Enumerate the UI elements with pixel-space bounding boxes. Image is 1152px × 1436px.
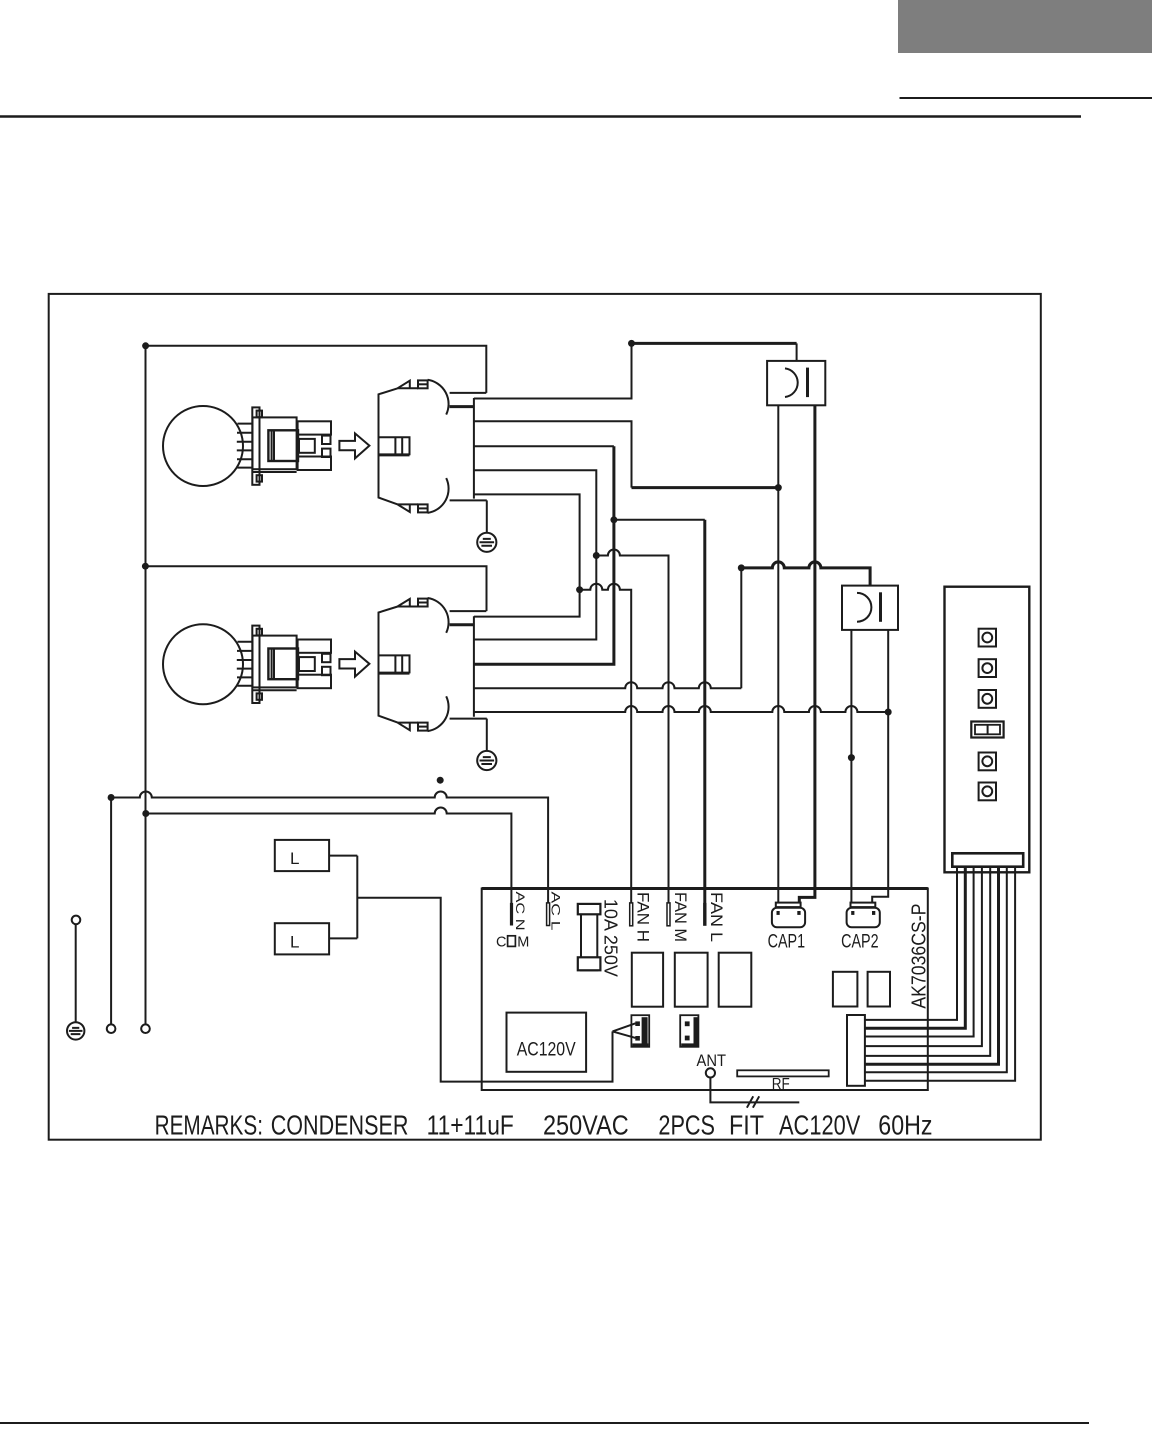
- bottom page rule: [0, 1422, 1089, 1424]
- svg-text:L: L: [290, 932, 299, 951]
- ribbon wire 7: [865, 867, 1007, 1072]
- switch combined wire to PCB: [357, 898, 612, 1082]
- PE wire: [75, 924, 77, 1022]
- wire line1 to AC L: [111, 792, 548, 904]
- wire break symbol: [747, 1096, 759, 1107]
- branch to FAN M: [596, 550, 668, 904]
- relay K3: [719, 953, 752, 1007]
- pin AC L: [547, 903, 550, 926]
- wire w3 riser to w3b: [474, 446, 614, 664]
- svg-text:RF: RF: [772, 1076, 790, 1093]
- fork into connector C1: [613, 1023, 636, 1038]
- svg-text:AC120V: AC120V: [517, 1040, 576, 1061]
- button 5: [979, 783, 996, 801]
- svg-text:AC120V: AC120V: [779, 1110, 861, 1141]
- button 3: [979, 690, 996, 708]
- ribbon wire 4: [865, 867, 982, 1046]
- U1 right lead to CAP1: [799, 405, 815, 903]
- switch output wires: [329, 856, 357, 939]
- wire M2 feed top: [145, 566, 486, 611]
- switch box S1: [275, 840, 329, 871]
- pin FAN L: [703, 903, 706, 926]
- control panel outline: [945, 587, 1030, 873]
- wire to protector U2: [741, 562, 870, 586]
- ribbon wire 8: [865, 867, 1015, 1081]
- junction dot FAN H branch: [576, 586, 583, 593]
- wire w3: [474, 445, 614, 447]
- wire M1 feed top: [146, 346, 487, 393]
- wire w1 receptacle1 to protector: [474, 343, 632, 398]
- header rule right: [900, 97, 1152, 99]
- terminal circle left bus: [141, 1024, 150, 1033]
- PE terminal circle: [72, 916, 81, 925]
- wire w4 to w2b: [474, 470, 596, 639]
- lone dot U2 lead: [848, 754, 855, 761]
- PCB right connector: [847, 1015, 865, 1086]
- pin FAN H: [630, 903, 633, 926]
- wire w2: [474, 421, 632, 487]
- wire w5 to w1b: [474, 494, 580, 616]
- svg-text:FIT: FIT: [729, 1110, 764, 1141]
- node dot line1: [108, 794, 115, 801]
- branch to FAN H: [580, 584, 632, 904]
- pin FAN M: [667, 903, 670, 926]
- AC120V box: [507, 1013, 587, 1072]
- svg-text:AC L: AC L: [549, 892, 563, 931]
- svg-text:10A 250V: 10A 250V: [601, 899, 621, 977]
- svg-text:11+11uF: 11+11uF: [427, 1110, 514, 1141]
- junction dot w4b: [738, 564, 745, 571]
- wire w4b riser: [740, 568, 742, 688]
- component box right A: [833, 972, 858, 1007]
- U1 left lead to CAP1: [777, 405, 779, 903]
- svg-text:250VAC: 250VAC: [543, 1110, 629, 1141]
- node dot M1: [142, 342, 149, 349]
- junction dot FAN L branch: [610, 516, 617, 523]
- svg-text:FAN L: FAN L: [707, 892, 726, 942]
- panel connector: [952, 853, 1023, 866]
- button 2: [979, 659, 996, 677]
- svg-text:AC N: AC N: [513, 892, 527, 931]
- svg-text:REMARKS:: REMARKS:: [155, 1110, 263, 1141]
- svg-text:CAP2: CAP2: [841, 932, 879, 953]
- header gray block: [898, 0, 1152, 53]
- capacitor CAP2: [847, 908, 880, 928]
- thermal protector U2: [842, 586, 898, 630]
- thermal protector U1: [767, 361, 825, 405]
- U2 left lead to CAP2: [850, 630, 852, 903]
- junction dot w1: [628, 340, 635, 347]
- capacitor CAP1: [772, 908, 805, 928]
- ANT wire: [710, 1078, 799, 1103]
- isolated dot: [437, 777, 444, 784]
- pin AC N: [510, 903, 513, 926]
- top page rule: [0, 115, 1081, 118]
- PCB board outline: [482, 889, 928, 1091]
- node dot line2: [142, 810, 149, 817]
- svg-text:M: M: [517, 935, 529, 951]
- ribbon wire 2: [865, 867, 965, 1029]
- svg-text:AK7036CS-P: AK7036CS-P: [907, 904, 930, 1009]
- U2 right lead to CAP2: [872, 630, 888, 903]
- svg-text:60Hz: 60Hz: [878, 1110, 932, 1141]
- svg-text:C: C: [496, 935, 506, 951]
- PE ground symbol: [67, 1022, 84, 1039]
- fuse F1: [581, 905, 597, 971]
- ribbon wire 3: [865, 867, 974, 1037]
- button 4: [979, 753, 996, 771]
- connector C1: [631, 1015, 649, 1047]
- switch box S2: [275, 923, 329, 954]
- connector C2: [680, 1015, 698, 1047]
- junction dot w5b/U2: [885, 709, 892, 716]
- terminal circle N bus: [107, 1024, 116, 1033]
- diagram border frame: [49, 294, 1041, 1140]
- junction dot w2/U1: [775, 484, 782, 491]
- wire w5b run: [474, 706, 888, 712]
- ribbon wire 6: [865, 867, 999, 1065]
- ribbon wire 1: [865, 867, 957, 1020]
- N bus wire: [110, 798, 112, 1025]
- svg-text:ANT: ANT: [697, 1051, 727, 1070]
- junction dot FAN M branch: [593, 552, 600, 559]
- ANT terminal circle: [706, 1068, 715, 1077]
- relay K2: [675, 953, 708, 1007]
- left bus wire: [145, 346, 147, 1025]
- relay K1: [632, 953, 663, 1007]
- button 1: [979, 629, 996, 647]
- motor assembly 2: [163, 598, 496, 770]
- slide switch: [971, 722, 1003, 738]
- svg-text:2PCS: 2PCS: [658, 1110, 715, 1141]
- ribbon wire 5: [865, 867, 990, 1056]
- motor assembly 1: [163, 380, 496, 552]
- RF bar: [737, 1070, 829, 1076]
- svg-text:CONDENSER: CONDENSER: [271, 1110, 409, 1141]
- node dot M2: [142, 563, 149, 570]
- svg-text:L: L: [290, 849, 299, 868]
- branch to FAN L: [614, 519, 705, 521]
- svg-text:FAN M: FAN M: [671, 892, 690, 942]
- wire w4b run: [474, 682, 741, 688]
- svg-text:CAP1: CAP1: [768, 932, 806, 953]
- wire line2 to AC N: [146, 808, 512, 904]
- svg-text:FAN H: FAN H: [633, 892, 652, 942]
- component box right B: [868, 972, 890, 1007]
